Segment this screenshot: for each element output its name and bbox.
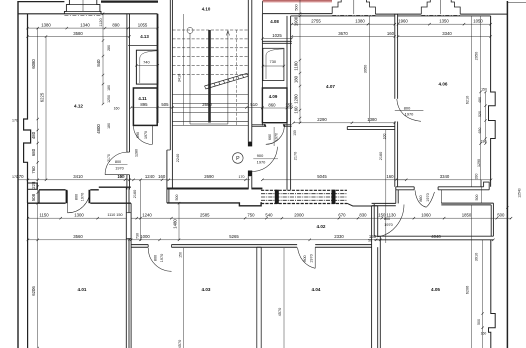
svg-text:6225: 6225 <box>40 92 45 102</box>
closet 730 <box>262 48 285 80</box>
svg-text:180: 180 <box>107 85 111 91</box>
wall top-left outer face <box>18 1 158 3</box>
svg-text:840: 840 <box>96 59 101 67</box>
corridor north wall right of band <box>347 203 372 206</box>
wall 4.12|4.13 block <box>127 14 130 190</box>
room label 4.08 <box>270 19 279 24</box>
svg-text:4570: 4570 <box>278 308 282 316</box>
svg-text:1850: 1850 <box>462 213 472 218</box>
svg-text:P: P <box>236 156 240 162</box>
wall stair left <box>167 0 173 203</box>
svg-text:160: 160 <box>387 31 395 36</box>
vdim 4.06 6210 <box>465 16 471 187</box>
wall top-left inner face <box>18 13 158 15</box>
svg-text:2160: 2160 <box>133 190 137 198</box>
svg-text:3340: 3340 <box>440 174 450 179</box>
svg-text:6080: 6080 <box>31 59 36 69</box>
wall 4.09 bottom <box>252 124 292 126</box>
svg-text:160: 160 <box>386 174 394 179</box>
wall 4.07|4.06 upper <box>395 14 398 99</box>
svg-text:2330: 2330 <box>334 234 344 239</box>
svg-text:500: 500 <box>477 319 481 325</box>
wall top right block outer <box>262 13 507 16</box>
vdim left 6080 <box>31 27 39 205</box>
vdim 4.07 3950 <box>364 16 370 123</box>
svg-text:800: 800 <box>154 255 158 261</box>
svg-text:500: 500 <box>475 195 479 201</box>
svg-text:155: 155 <box>285 102 293 107</box>
dim row 2290 1380 <box>292 117 396 124</box>
svg-text:3580: 3580 <box>73 31 83 36</box>
glazed partition hatch band <box>261 190 347 204</box>
wall stair south <box>167 188 263 190</box>
svg-text:520: 520 <box>478 111 482 117</box>
hall south wall / 4.05 north <box>374 236 493 240</box>
staircase spine wall <box>208 30 211 123</box>
svg-text:800: 800 <box>75 194 79 200</box>
svg-text:4.02: 4.02 <box>317 224 326 229</box>
svg-text:6206: 6206 <box>31 286 36 296</box>
dim row mid stair <box>167 174 250 181</box>
wall 4.04|4.05 <box>372 204 381 348</box>
svg-text:1340: 1340 <box>80 23 90 28</box>
vdim 4.03 4570 <box>178 248 184 348</box>
svg-text:3950: 3950 <box>364 65 368 73</box>
svg-text:4.06: 4.06 <box>439 82 448 87</box>
closet 740 in 4.11 block <box>135 50 159 84</box>
spur wall in 4.07 <box>347 127 395 130</box>
svg-text:1480: 1480 <box>173 219 178 229</box>
text 500 top <box>294 4 298 10</box>
dim row 3340 top <box>397 31 492 38</box>
svg-text:740: 740 <box>143 59 150 64</box>
dim row top 4.07 <box>291 19 396 26</box>
svg-text:4.03: 4.03 <box>202 287 211 292</box>
svg-text:1025: 1025 <box>272 33 282 38</box>
staircase walk line <box>187 27 230 124</box>
svg-text:1180: 1180 <box>294 61 299 71</box>
vdim 4.04 4570 <box>278 248 284 348</box>
svg-text:5045: 5045 <box>317 174 327 179</box>
svg-text:860: 860 <box>268 102 276 107</box>
svg-text:1900: 1900 <box>294 16 299 26</box>
svg-text:12540: 12540 <box>518 188 522 198</box>
svg-text:1960: 1960 <box>398 19 408 24</box>
wall 4.06 south <box>396 182 489 190</box>
svg-text:690: 690 <box>136 132 140 138</box>
svg-text:4.13: 4.13 <box>140 34 149 39</box>
svg-text:1120: 1120 <box>99 18 103 26</box>
svg-text:180: 180 <box>107 123 111 129</box>
svg-text:1380: 1380 <box>355 19 365 24</box>
chimney hidden dash line <box>64 14 101 16</box>
vdim left 6225 <box>40 35 48 181</box>
vdim 330 right <box>475 174 479 180</box>
svg-text:5265: 5265 <box>229 234 239 239</box>
red marked wall top <box>263 1 332 2</box>
svg-text:2585: 2585 <box>200 213 210 218</box>
door 800 room 4.04 <box>297 247 320 271</box>
svg-text:160: 160 <box>481 332 487 336</box>
dim row corridor upper left <box>27 213 126 220</box>
svg-text:1350: 1350 <box>439 19 449 24</box>
room 4.08 bottom dim <box>261 33 293 40</box>
wall 4.13 bottom <box>128 45 157 47</box>
texts 1110 150 <box>107 213 122 217</box>
staircase dim lines <box>184 14 237 125</box>
vdim 500 nook right <box>475 195 479 201</box>
corridor east wall L <box>372 187 399 206</box>
svg-text:1000: 1000 <box>140 234 150 239</box>
svg-text:1240: 1240 <box>145 174 155 179</box>
wall 4.13 right <box>157 14 159 123</box>
svg-text:170: 170 <box>239 175 245 179</box>
svg-text:510: 510 <box>250 102 258 107</box>
svg-text:890: 890 <box>112 23 120 28</box>
svg-text:3410: 3410 <box>73 174 83 179</box>
staircase break line hatched <box>205 73 249 89</box>
wall 4.03|4.04 <box>257 247 261 348</box>
svg-text:1290: 1290 <box>477 159 481 167</box>
wall 4.08 block left <box>261 14 263 126</box>
chimney B <box>421 0 460 15</box>
svg-text:800: 800 <box>303 255 307 261</box>
svg-text:760: 760 <box>31 166 36 174</box>
vdim 4.12 interior <box>96 13 120 134</box>
dim row 3670 <box>291 31 396 38</box>
room label 4.01 <box>78 287 87 292</box>
svg-text:508: 508 <box>31 193 36 201</box>
svg-text:1970: 1970 <box>81 193 85 201</box>
room 4.09 box <box>262 88 287 123</box>
wall right outer <box>506 1 508 348</box>
svg-text:4570: 4570 <box>178 340 182 348</box>
wall 4.12 south <box>28 187 131 203</box>
hall north-east step wall <box>441 203 493 236</box>
right wall step dims <box>477 88 487 167</box>
svg-text:330: 330 <box>475 174 479 180</box>
dim row 860 155 <box>261 102 293 109</box>
svg-text:3340: 3340 <box>442 31 452 36</box>
svg-text:3560: 3560 <box>73 234 83 239</box>
room 4.08 bottom wall <box>262 41 291 43</box>
vertical at 500 dim <box>263 0 302 15</box>
svg-text:730: 730 <box>136 233 140 239</box>
room label 4.10 <box>202 7 211 12</box>
svg-text:170: 170 <box>12 175 18 179</box>
svg-text:4.10: 4.10 <box>202 7 211 12</box>
room label 4.04 <box>312 287 321 292</box>
svg-text:1280: 1280 <box>134 149 138 157</box>
svg-text:2170: 2170 <box>107 154 111 162</box>
svg-text:4.01: 4.01 <box>78 287 87 292</box>
svg-text:1060: 1060 <box>421 213 431 218</box>
svg-text:860: 860 <box>419 195 423 201</box>
svg-text:660: 660 <box>268 134 272 140</box>
svg-text:4.08: 4.08 <box>270 19 279 24</box>
svg-text:160: 160 <box>117 174 125 179</box>
dim row corridor upper <box>131 213 383 220</box>
wall stair right <box>248 0 252 189</box>
neighbour line top right <box>507 2 526 4</box>
svg-text:2160: 2160 <box>379 152 383 160</box>
door 900 stair hall <box>252 146 277 171</box>
svg-text:670: 670 <box>338 213 346 218</box>
svg-text:505: 505 <box>161 102 169 107</box>
door 860 room 4.06 to hall <box>415 190 441 207</box>
svg-text:1970: 1970 <box>160 254 164 262</box>
wall 4.01 east <box>126 187 131 348</box>
svg-text:4.04: 4.04 <box>312 287 321 292</box>
chimney top-left <box>64 0 101 14</box>
svg-text:1110 150: 1110 150 <box>107 213 122 217</box>
door 800 room 4.06 <box>395 99 424 122</box>
svg-text:1240: 1240 <box>142 213 152 218</box>
text 1120 vertical <box>99 18 103 26</box>
door 800 room 4.12 <box>105 152 128 178</box>
vdim 2170 2160 <box>294 130 387 243</box>
svg-text:500: 500 <box>175 195 179 201</box>
svg-text:1970: 1970 <box>309 254 313 262</box>
svg-text:900: 900 <box>257 153 264 158</box>
corridor south wall west <box>131 245 148 248</box>
svg-text:228: 228 <box>31 181 36 189</box>
svg-text:1380: 1380 <box>41 23 51 28</box>
svg-text:50: 50 <box>368 239 372 243</box>
dim row 3580 <box>26 31 130 38</box>
svg-text:6206: 6206 <box>465 286 469 294</box>
svg-text:1970: 1970 <box>426 193 430 201</box>
svg-text:680: 680 <box>31 148 36 156</box>
svg-text:1055: 1055 <box>138 23 148 28</box>
svg-text:180: 180 <box>294 75 299 83</box>
svg-text:1380: 1380 <box>367 117 377 122</box>
svg-text:1150: 1150 <box>39 213 49 218</box>
overall dim right margin <box>506 188 521 209</box>
svg-text:480: 480 <box>478 97 482 103</box>
room label 4.05 <box>431 287 440 292</box>
svg-text:630: 630 <box>478 128 482 134</box>
svg-text:1250: 1250 <box>107 95 111 103</box>
text 170 left <box>12 119 18 180</box>
svg-text:1970: 1970 <box>144 131 148 139</box>
vdim 4.07 left column <box>294 15 302 124</box>
room label 4.03 <box>202 287 211 292</box>
svg-text:280: 280 <box>107 45 111 51</box>
corridor south wall east <box>315 245 371 248</box>
wall top right inner <box>291 15 491 17</box>
svg-text:150 1130: 150 1130 <box>378 213 396 218</box>
door 800 4.01 labels <box>75 193 85 201</box>
svg-text:6210: 6210 <box>465 96 469 104</box>
staircase upper treads dashed <box>172 30 248 75</box>
svg-text:800: 800 <box>404 105 411 110</box>
vdim 4.04|4.05 500 <box>368 239 372 243</box>
svg-text:4800: 4800 <box>96 124 101 134</box>
vdim stair 3410 <box>178 74 182 82</box>
wall left inner face below corridor <box>27 203 29 348</box>
svg-text:2000: 2000 <box>294 213 304 218</box>
room 4.11 box <box>133 88 157 125</box>
svg-text:2755: 2755 <box>311 19 321 24</box>
svg-text:2950: 2950 <box>475 52 479 60</box>
room label 4.06 <box>439 82 448 87</box>
svg-text:750: 750 <box>247 213 255 218</box>
vdim 4.05 columns <box>465 205 486 348</box>
door 660 room 4.09 <box>266 126 297 146</box>
svg-text:2240: 2240 <box>176 154 180 162</box>
svg-text:1970: 1970 <box>405 112 414 117</box>
svg-text:1050: 1050 <box>473 19 483 24</box>
room label 4.07 <box>326 84 335 89</box>
svg-text:1300: 1300 <box>74 213 84 218</box>
dim row mid left <box>16 174 131 181</box>
wall left outer face <box>17 1 19 348</box>
dim row top-left <box>26 23 158 30</box>
door 4.11 opening <box>133 125 152 157</box>
chimney A <box>332 0 375 15</box>
svg-text:1970: 1970 <box>275 133 279 141</box>
vdim left 6206 <box>31 203 39 348</box>
corridor south wall mid <box>172 245 298 248</box>
wall 4.07|4.06 lower <box>395 122 398 187</box>
svg-text:160: 160 <box>114 107 120 111</box>
svg-text:170: 170 <box>12 119 18 123</box>
room label 4.13 <box>140 34 149 39</box>
svg-text:150: 150 <box>481 88 487 92</box>
svg-text:2690: 2690 <box>204 174 214 179</box>
room label 4.09 <box>269 94 278 99</box>
wall 4.08 block right <box>287 16 291 190</box>
dim row through 4.11 and stair <box>130 102 264 109</box>
svg-text:3410: 3410 <box>178 74 182 82</box>
dim row 5045 <box>261 174 407 181</box>
svg-text:830: 830 <box>359 213 367 218</box>
svg-text:540: 540 <box>265 213 273 218</box>
room label 4.12 <box>74 104 83 109</box>
dim row 3340 mid <box>395 174 493 181</box>
P symbol circle <box>233 153 244 164</box>
svg-text:1970: 1970 <box>115 167 123 171</box>
svg-text:730: 730 <box>270 59 277 64</box>
wall left inner face stepped <box>24 14 37 204</box>
svg-text:2690: 2690 <box>202 102 212 107</box>
dim row mid vestibule <box>131 174 167 181</box>
svg-text:500: 500 <box>294 4 298 10</box>
svg-text:4.09: 4.09 <box>269 94 278 99</box>
svg-text:4.12: 4.12 <box>74 104 83 109</box>
vdim 4.06 2950 <box>475 16 482 187</box>
svg-text:3910: 3910 <box>475 253 479 261</box>
svg-text:2170: 2170 <box>294 152 298 160</box>
wall right inner stepped upper <box>489 16 496 187</box>
svg-text:160: 160 <box>158 174 166 179</box>
svg-text:1970: 1970 <box>257 160 266 165</box>
svg-text:3670: 3670 <box>338 31 348 36</box>
vdim vestibule <box>173 202 181 241</box>
room label 4.11 <box>138 96 147 101</box>
svg-text:500: 500 <box>497 213 505 218</box>
vestibule dim column <box>133 179 142 241</box>
dim row corridor lower <box>130 234 495 241</box>
svg-text:150: 150 <box>293 130 297 136</box>
dim 500 line nook <box>481 180 483 203</box>
svg-text:4040: 4040 <box>431 234 441 239</box>
dim row top 4.06 <box>397 19 492 26</box>
svg-text:160: 160 <box>294 106 299 114</box>
door 900 labels <box>253 153 278 165</box>
svg-text:1970: 1970 <box>384 223 392 227</box>
staircase lower treads <box>172 95 248 126</box>
door 800 room 4.01 <box>68 191 90 213</box>
room label 4.02 <box>317 224 326 229</box>
door 800 room 4.03 <box>148 247 171 271</box>
dim row corridor upper right <box>378 213 512 220</box>
svg-text:4.07: 4.07 <box>326 84 335 89</box>
corridor north wall mid <box>167 203 262 206</box>
svg-text:1280: 1280 <box>294 94 299 104</box>
svg-text:150: 150 <box>179 252 183 258</box>
door 1130 hall <box>377 205 404 238</box>
svg-text:895: 895 <box>140 102 148 107</box>
svg-text:2290: 2290 <box>317 117 327 122</box>
svg-text:4.05: 4.05 <box>431 287 440 292</box>
svg-text:4.11: 4.11 <box>138 96 147 101</box>
svg-text:480: 480 <box>31 131 36 139</box>
dim row 3560 <box>27 234 131 241</box>
svg-text:800: 800 <box>115 160 121 164</box>
wall right inner stepped lower <box>489 240 496 348</box>
stair landing dims <box>175 154 245 203</box>
